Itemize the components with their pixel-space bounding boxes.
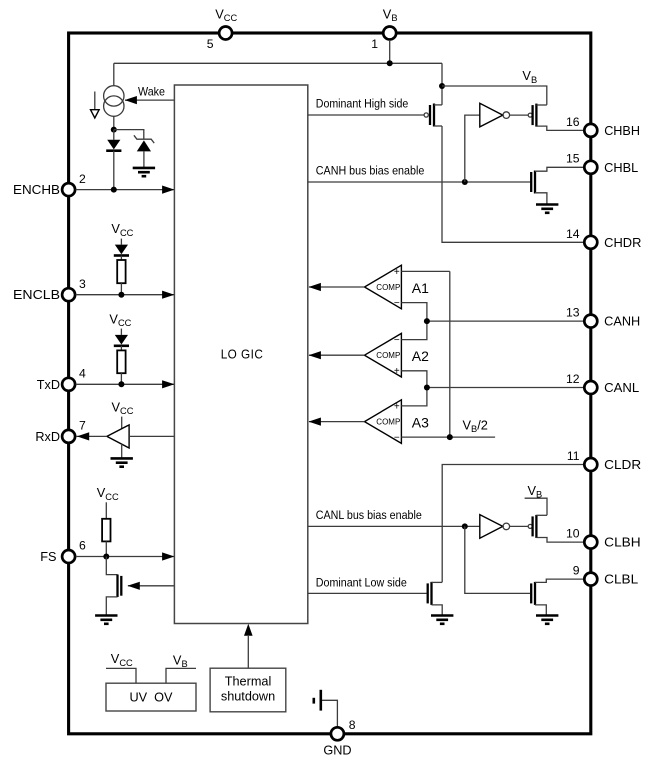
svg-text:9: 9 <box>573 564 580 578</box>
svg-text:A1: A1 <box>412 280 429 296</box>
pin 14 CHDR circle <box>584 236 597 249</box>
svg-text:LO GIC: LO GIC <box>221 348 264 362</box>
svg-text:1: 1 <box>371 37 378 51</box>
svg-text:A2: A2 <box>412 348 429 364</box>
pin 10 CLBH circle <box>584 536 597 549</box>
node ENCHB junction <box>111 187 117 193</box>
pin 8 GND circle <box>331 727 344 740</box>
diode D1 <box>113 130 115 140</box>
wire Dominant High side from logic <box>308 114 424 116</box>
wire wake control from logic <box>125 99 174 101</box>
svg-text:+: + <box>394 401 400 412</box>
wire ENCLB to logic <box>76 294 175 296</box>
svg-text:TxD: TxD <box>37 378 60 392</box>
wire CANH bias enable from logic <box>308 181 530 183</box>
node CANH bias junction <box>462 179 468 185</box>
wire current source to junction <box>113 116 115 129</box>
UV OV block <box>106 683 196 711</box>
wire junction to zener <box>114 130 144 140</box>
comparator A3 <box>365 400 402 444</box>
svg-text:10: 10 <box>566 527 580 541</box>
pin 4 TxD circle <box>62 378 75 391</box>
pin 9 CLBL circle <box>584 573 597 586</box>
svg-text:ENCHB: ENCHB <box>13 183 60 197</box>
svg-text:+: + <box>394 366 400 377</box>
VB/2 rail vertical <box>449 271 451 437</box>
inverter U3 <box>480 103 503 127</box>
transistor Q5 CLBH PMOS <box>528 524 532 528</box>
battery symbol <box>312 698 315 704</box>
wire VB horizontal rail <box>114 62 442 64</box>
pin 16 CHBH circle <box>584 124 597 137</box>
current source I-wake <box>104 86 124 106</box>
svg-text:−: − <box>394 433 400 444</box>
node VB rail junction <box>387 60 393 66</box>
pin 13 CANH circle <box>584 315 597 328</box>
svg-text:CANL bus bias enable: CANL bus bias enable <box>316 508 422 522</box>
wire CLDR from pin 11 <box>442 465 584 583</box>
node CANL <box>424 385 430 391</box>
logic block <box>174 85 307 624</box>
node VB branch to CHBH driver <box>439 83 445 89</box>
diode D3 <box>120 329 122 335</box>
wire VB pin1 down <box>389 40 391 63</box>
wire CANL bias enable from logic <box>308 525 480 527</box>
svg-text:Wake: Wake <box>138 85 165 98</box>
pin 7 RxD circle <box>62 430 75 443</box>
svg-text:CHBH: CHBH <box>604 124 640 138</box>
wire Q1 gate from logic <box>128 585 174 587</box>
ground below Q6 <box>536 614 558 617</box>
pin 6 FS circle <box>62 550 75 563</box>
wire Vcc to buffer <box>121 417 123 430</box>
comparator A2 <box>365 333 402 377</box>
svg-text:3: 3 <box>79 277 86 291</box>
svg-text:FS: FS <box>40 550 56 564</box>
diode D2 <box>120 239 122 245</box>
node CANH <box>424 318 430 324</box>
svg-text:16: 16 <box>566 115 580 129</box>
pin 2 ENCHB circle <box>62 183 75 196</box>
resistor R1 <box>120 256 122 261</box>
wire logic to buffer input <box>129 435 174 437</box>
wire junction down to Q6 gate <box>465 526 530 593</box>
wire Dominant Low side from logic <box>308 592 427 594</box>
svg-text:6: 6 <box>79 539 86 553</box>
svg-text:−: − <box>394 298 400 309</box>
svg-text:14: 14 <box>566 227 580 241</box>
wire thermal shutdown to logic <box>247 636 249 668</box>
wire A2 minus input to CANH <box>401 321 427 340</box>
svg-text:CANH bus bias enable: CANH bus bias enable <box>316 164 425 178</box>
transistor Q2 high side driver PMOS <box>424 113 428 117</box>
wire buffer output to pin 7 <box>77 435 107 437</box>
wire VB branch to right <box>442 86 547 105</box>
wire A2 plus input to CANL <box>401 371 427 388</box>
wire TxD to logic <box>76 383 175 385</box>
node VB/2 <box>447 434 453 440</box>
wire into current source <box>113 63 115 86</box>
wire A1 plus input to VB/2 rail <box>401 270 449 272</box>
transistor Q3 CHBH PMOS <box>528 113 532 117</box>
ground below Q1 <box>95 614 117 617</box>
svg-text:2: 2 <box>79 172 86 186</box>
wire junction up to inverter <box>465 115 480 182</box>
inverter U4 <box>480 515 503 539</box>
svg-text:GND: GND <box>323 744 351 757</box>
svg-text:UV OV: UV OV <box>129 691 173 705</box>
transistor Q7 low side driver NMOS <box>427 583 429 603</box>
node below current source <box>111 127 117 133</box>
svg-text:CHDR: CHDR <box>604 236 641 250</box>
wire battery to pin 8 <box>322 700 337 727</box>
wire FS to logic <box>76 556 175 558</box>
svg-text:RxD: RxD <box>35 430 60 444</box>
ground below zener <box>133 167 155 170</box>
wire A2 output to logic <box>309 354 365 356</box>
wire A1 output to logic <box>309 286 365 288</box>
svg-text:COMP: COMP <box>376 418 400 427</box>
wire Vcc to resistor <box>105 502 107 519</box>
thermal shutdown block <box>210 668 286 712</box>
svg-text:15: 15 <box>566 152 580 166</box>
node TxD junction <box>118 381 124 387</box>
svg-text:Dominant Low side: Dominant Low side <box>316 576 407 590</box>
svg-text:7: 7 <box>79 419 86 433</box>
ground below RxD buffer <box>111 457 133 460</box>
pin 5 circle <box>219 27 232 40</box>
svg-text:5: 5 <box>207 37 214 51</box>
wire buffer to ground <box>121 444 123 459</box>
pin 11 CLDR circle <box>584 458 597 471</box>
resistor R2 <box>120 346 122 351</box>
wire CANL from pin 12 <box>427 387 584 389</box>
pin 1 circle <box>383 27 396 40</box>
svg-text:11: 11 <box>567 449 580 463</box>
transistor Q6 CLBL NMOS <box>530 583 532 603</box>
wire inverter to Q3 gate <box>510 114 528 116</box>
transistor Q1 FS clamp <box>106 557 117 575</box>
wire Vcc stub to UV OV <box>106 668 136 683</box>
svg-text:CHBL: CHBL <box>604 161 638 175</box>
svg-text:COMP: COMP <box>376 351 400 360</box>
svg-text:Dominant High side: Dominant High side <box>316 97 409 111</box>
wire Vb stub to UV OV <box>166 668 196 683</box>
resistor R3 <box>102 519 110 542</box>
wire inverter to Q5 gate <box>510 525 528 527</box>
wire Vb bar CLBH <box>525 498 547 515</box>
pin 12 CANL circle <box>584 381 597 394</box>
svg-text:−: − <box>394 335 400 346</box>
svg-text:8: 8 <box>349 718 356 732</box>
svg-text:Thermalshutdown: Thermalshutdown <box>221 675 275 704</box>
node ENCLB junction <box>118 292 124 298</box>
svg-text:12: 12 <box>566 372 580 386</box>
IC boundary box <box>69 33 591 734</box>
transistor Q4 CHBL NMOS <box>530 172 532 192</box>
svg-text:CANL: CANL <box>604 381 639 395</box>
current direction arrow <box>94 92 96 111</box>
wire A3 minus input / VB/2 stub <box>401 436 495 438</box>
svg-text:CLBL: CLBL <box>604 573 638 587</box>
svg-text:13: 13 <box>566 306 580 320</box>
wire ENCHB to logic <box>76 189 175 191</box>
pin 3 ENCLB circle <box>62 288 75 301</box>
node CANL bias junction <box>462 523 468 529</box>
svg-text:CLDR: CLDR <box>604 458 641 472</box>
buffer U2 RxD driver <box>107 425 129 448</box>
svg-text:COMP: COMP <box>376 283 400 292</box>
svg-text:CANH: CANH <box>604 315 640 329</box>
wire A1 minus input to CANH <box>401 303 427 322</box>
wire VB rail corner down to high-side source <box>441 63 443 105</box>
node FS junction <box>103 554 109 560</box>
svg-text:+: + <box>394 267 400 278</box>
zener diode Z1 <box>134 135 154 143</box>
wire A3 output to logic <box>309 421 365 423</box>
svg-text:4: 4 <box>79 367 86 381</box>
ground below Q4 <box>536 203 558 206</box>
comparator A1 <box>365 265 402 309</box>
pin 15 CHBL circle <box>584 161 597 174</box>
ground below Q7 <box>431 614 453 617</box>
svg-text:ENCLB: ENCLB <box>13 288 60 302</box>
svg-text:A3: A3 <box>412 415 429 431</box>
svg-text:CLBH: CLBH <box>604 536 641 550</box>
wire A3 plus input to CANL <box>401 388 427 406</box>
wire Q2 drain to pin 14 <box>442 126 584 242</box>
wire CANH from pin 13 <box>427 320 584 322</box>
